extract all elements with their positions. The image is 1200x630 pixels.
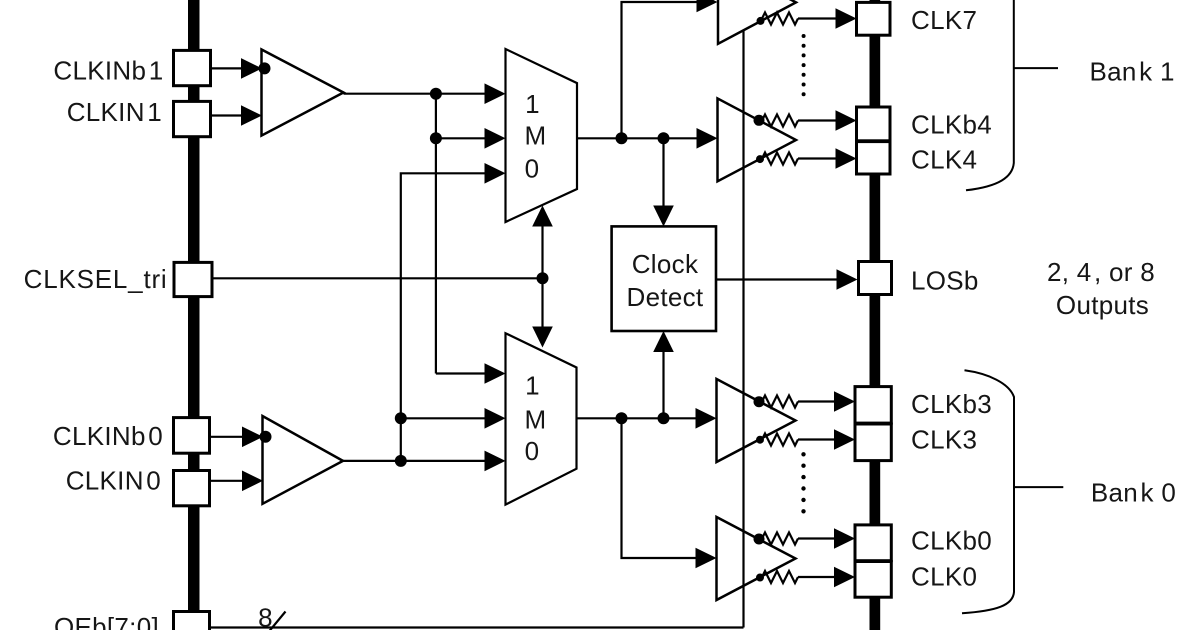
ellipsis dots bank0 (more outputs) — [801, 452, 805, 513]
svg-text:LOSb: LOSb — [911, 266, 979, 296]
wire down-feed to bottom driver D4 — [622, 418, 702, 558]
wire CLKIN1 to buffer A1 — [211, 114, 247, 116]
resistor R_CLK3 — [762, 434, 798, 446]
junction dot CLKSEL node — [537, 272, 549, 284]
arrow into mux M0 input 0 — [485, 451, 506, 472]
wire CLKINb1 to buffer A1 — [211, 67, 247, 69]
junction dot on driver D3 top edge — [754, 396, 765, 407]
pin box OEb[7:0] — [174, 612, 210, 630]
resistor R_CLKb4 — [762, 115, 798, 127]
mux M1 (upper 1/M/0) — [506, 49, 578, 222]
pin box CLKIN0 — [174, 471, 210, 506]
junction dot to top driver feed — [616, 132, 628, 144]
arrow into CLKb4 pin — [836, 110, 857, 131]
output driver D2 (CLKb4/CLK4) — [718, 98, 797, 181]
wire node A down to lower mux — [435, 94, 437, 374]
pin box CLKb0 — [855, 525, 891, 561]
resistor R_CLKb3 — [762, 396, 798, 408]
wire up to clock detect — [662, 345, 664, 418]
svg-text:CLKb3: CLKb3 — [911, 389, 992, 419]
junction dot on buffer A1 inverting input — [259, 62, 271, 74]
wire OEb enable vertical to drivers — [742, 30, 744, 628]
svg-text:CLKIN 0: CLKIN 0 — [66, 465, 161, 495]
wire resistor to CLK7 pin — [798, 17, 840, 19]
svg-text:8: 8 — [258, 602, 273, 630]
arrow into CLK3 pin — [834, 429, 855, 450]
wire resistor to CLK0 pin — [798, 576, 840, 578]
wire resistor to CLK3 pin — [798, 438, 840, 440]
junction dot on driver D3 bottom edge — [756, 436, 764, 444]
pin box CLK7 — [857, 2, 891, 35]
pin box CLKb4 — [857, 107, 891, 141]
arrow into LOSb pin — [837, 269, 858, 290]
junction dot on driver D4 top edge — [754, 534, 765, 545]
junction dot on driver D4 bottom edge — [756, 574, 764, 582]
arrow into mux M0 input 1 — [485, 363, 506, 384]
arrow into buffer A1 inverting input — [241, 58, 262, 79]
arrow into mux M1 input M — [485, 128, 506, 149]
svg-text:CLK3: CLK3 — [911, 424, 977, 454]
pin box CLKb3 — [855, 387, 891, 424]
wire mux M1 output to driver D2 — [577, 137, 703, 139]
brace bank 0 tick — [1014, 486, 1063, 488]
arrow into driver D2 — [697, 128, 718, 149]
arrow into driver D3 — [696, 408, 717, 429]
arrow into buffer A0 inverting input — [242, 427, 263, 448]
wire tap to mux M0 input M — [401, 417, 492, 419]
arrow into driver D1 — [697, 0, 718, 12]
ellipsis dots bank1 (more outputs) — [802, 34, 806, 96]
svg-text:2, 4 , or 8: 2, 4 , or 8 — [1047, 257, 1155, 287]
junction dot on driver D1 edge — [757, 17, 765, 25]
arrow into CLK7 pin — [836, 8, 857, 29]
resistor R_CLK7 — [762, 13, 798, 25]
svg-text:1: 1 — [525, 89, 540, 119]
right device boundary rail — [870, 0, 881, 630]
arrow up into clock detect — [653, 331, 674, 352]
junction dot on buffer A0 inverting input — [260, 431, 272, 443]
mux M0 (lower 1/M/0) — [506, 333, 577, 504]
brace bank 1 tick — [1014, 67, 1058, 69]
svg-text:CLKINb 0: CLKINb 0 — [53, 421, 163, 451]
pin box CLKIN1 — [174, 101, 211, 136]
pin box LOSb — [859, 262, 892, 295]
wire up-feed to top driver D1 — [622, 2, 701, 138]
pin box CLKSEL_tri — [174, 262, 212, 296]
input buffer A0 (CLKIN0) — [263, 416, 344, 504]
left device boundary rail — [188, 0, 200, 613]
arrow into mux M0 input M — [485, 408, 506, 429]
svg-text:Ban k 0: Ban k 0 — [1091, 477, 1176, 507]
wire clock detect output to LOSb — [716, 278, 840, 280]
wire CLKSEL up to mux M1 select — [541, 223, 543, 278]
svg-text:CLKb4: CLKb4 — [911, 110, 992, 140]
svg-text:CLKINb 1: CLKINb 1 — [53, 56, 163, 86]
svg-text:CLKb0: CLKb0 — [911, 526, 992, 556]
svg-text:CLK7: CLK7 — [911, 5, 977, 35]
junction dot on driver D2 bottom edge — [756, 155, 764, 163]
junction dot on driver D2 top edge — [754, 115, 765, 126]
pin box CLKINb1 — [174, 50, 211, 85]
svg-text:CLK0: CLK0 — [911, 562, 977, 592]
svg-text:0: 0 — [525, 154, 540, 184]
junction dot to clock-detect bottom — [658, 412, 670, 424]
arrow into driver D4 — [696, 548, 717, 569]
svg-text:CLKIN 1: CLKIN 1 — [67, 97, 162, 127]
svg-text:Detect: Detect — [627, 282, 704, 312]
wire down to clock detect — [662, 138, 664, 212]
wire resistor to CLKb3 pin — [798, 400, 840, 402]
wire upper route into mux M1 input 0 — [401, 173, 492, 461]
arrow into buffer A0 input — [242, 471, 263, 492]
wire buffer A0 output to mux M0 input 0 — [343, 460, 492, 462]
wire resistor to CLK4 pin — [798, 157, 840, 159]
wire CLKIN0 to buffer A0 — [210, 480, 247, 482]
pin box CLK3 — [855, 424, 891, 461]
wire CLKINb0 to buffer A0 — [210, 436, 247, 438]
wire buffer A1 output to mux M1 input 1 — [344, 93, 493, 95]
svg-text:0: 0 — [525, 436, 540, 466]
junction dot tap to mux M1 input M — [430, 132, 442, 144]
wire resistor to CLKb4 pin — [798, 119, 840, 121]
wire CLKSEL_tri horizontal — [212, 277, 543, 279]
arrow into CLK4 pin — [836, 148, 857, 169]
arrow up into mux M1 select — [532, 206, 553, 227]
junction dot node B (buffer A0 out) — [395, 455, 407, 467]
wire tap to mux M1 input M — [436, 137, 492, 139]
wire resistor to CLKb0 pin — [798, 537, 840, 539]
svg-text:CLKSEL_tri: CLKSEL_tri — [24, 264, 168, 294]
svg-text:M: M — [525, 121, 547, 151]
output driver D3 (CLKb3/CLK3) — [717, 379, 796, 462]
arrow into mux M1 input 1 — [485, 83, 506, 104]
brace bank 0 — [962, 370, 1014, 613]
junction dot tap to mux M0 input M — [395, 412, 407, 424]
arrow into CLKb3 pin — [834, 391, 855, 412]
wire CLKSEL down to mux M0 select — [541, 278, 543, 329]
input buffer A1 (CLKIN1) — [262, 50, 344, 136]
svg-text:Ban k 1: Ban k 1 — [1090, 56, 1175, 86]
arrow into CLK0 pin — [834, 567, 855, 588]
bus width slash — [269, 612, 286, 630]
arrow into buffer A1 input — [241, 105, 262, 126]
resistor R_CLK0 — [762, 571, 798, 583]
svg-text:OEb[7:0]: OEb[7:0] — [54, 612, 159, 630]
resistor R_CLK4 — [762, 153, 798, 165]
arrow down into mux M0 select — [532, 327, 553, 348]
arrow down into clock detect — [653, 206, 674, 227]
junction dot to bottom driver feed — [616, 412, 628, 424]
brace bank 1 — [966, 0, 1014, 190]
svg-text:Clock: Clock — [632, 249, 699, 279]
clock detect block — [612, 226, 716, 331]
wire OEb bus horizontal — [210, 626, 744, 628]
arrow into mux M1 input 0 — [485, 163, 506, 184]
resistor R_CLKb0 — [762, 533, 798, 545]
pin box CLKINb0 — [174, 418, 210, 454]
wire node A route into mux M0 input 1 — [436, 372, 492, 374]
output driver D4 (CLKb0/CLK0) — [717, 517, 796, 600]
output driver D1 (CLK7, top, clipped) — [718, 0, 796, 44]
svg-text:CLK4: CLK4 — [911, 145, 977, 175]
junction dot node A (buffer A1 out) — [430, 88, 442, 100]
arrow into CLKb0 pin — [834, 528, 855, 549]
junction dot to clock-detect top — [658, 132, 670, 144]
pin box CLK0 — [855, 562, 891, 598]
pin box CLK4 — [857, 142, 891, 174]
svg-text:M: M — [525, 405, 547, 435]
svg-text:1: 1 — [525, 371, 540, 401]
wire mux M0 output to driver D3 — [577, 417, 703, 419]
svg-text:Outputs: Outputs — [1056, 290, 1149, 320]
